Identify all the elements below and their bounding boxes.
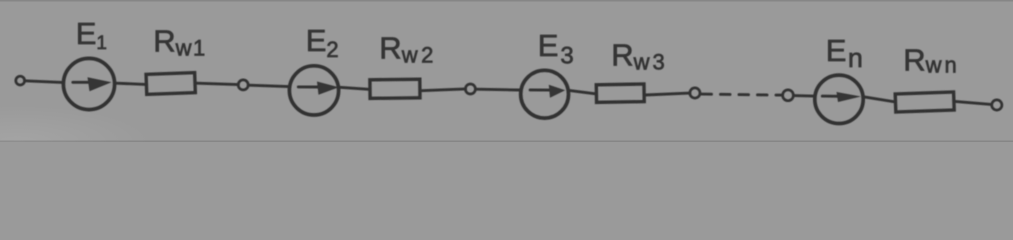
wire E2 to Rw2	[340, 87, 369, 89]
resistor Rw2	[370, 79, 420, 98]
wire Rw3 to T4	[645, 93, 690, 95]
terminal node T3	[465, 84, 475, 94]
wire E1 to Rw1	[116, 83, 146, 84]
arrow of E1	[73, 77, 112, 91]
source E1 circle	[63, 58, 114, 109]
terminal node T2	[238, 80, 248, 90]
terminal node T5	[783, 90, 794, 101]
source En circle	[815, 75, 863, 123]
wire T5 to En	[793, 94, 813, 97]
wire E3 to Rw3	[570, 91, 596, 94]
terminal node T4	[690, 88, 700, 98]
wire Rw1 to T2	[196, 83, 238, 84]
wire Rw2 to T3	[421, 89, 466, 91]
source E2 circle	[289, 66, 338, 115]
source E3 circle	[521, 70, 569, 118]
scan edge top	[0, 0, 1013, 2]
wire En to Rwn	[864, 97, 894, 102]
resistor Rw3	[596, 84, 644, 102]
resistor Rwn	[895, 92, 954, 112]
wire T2 to E2	[248, 85, 288, 86]
terminal node T6	[992, 100, 1002, 110]
wire Rwn to T6	[955, 101, 991, 104]
arrow of En	[822, 92, 861, 102]
terminal node T1	[16, 76, 25, 85]
scan edge bottom	[0, 141, 1013, 143]
wire T3 to E3	[476, 88, 520, 92]
resistor Rw1	[146, 73, 195, 95]
wire T1 to E1	[25, 81, 63, 83]
dashed wire T4 to T5	[702, 94, 781, 95]
arrow of E3	[530, 85, 565, 98]
arrow of E2	[298, 82, 339, 95]
